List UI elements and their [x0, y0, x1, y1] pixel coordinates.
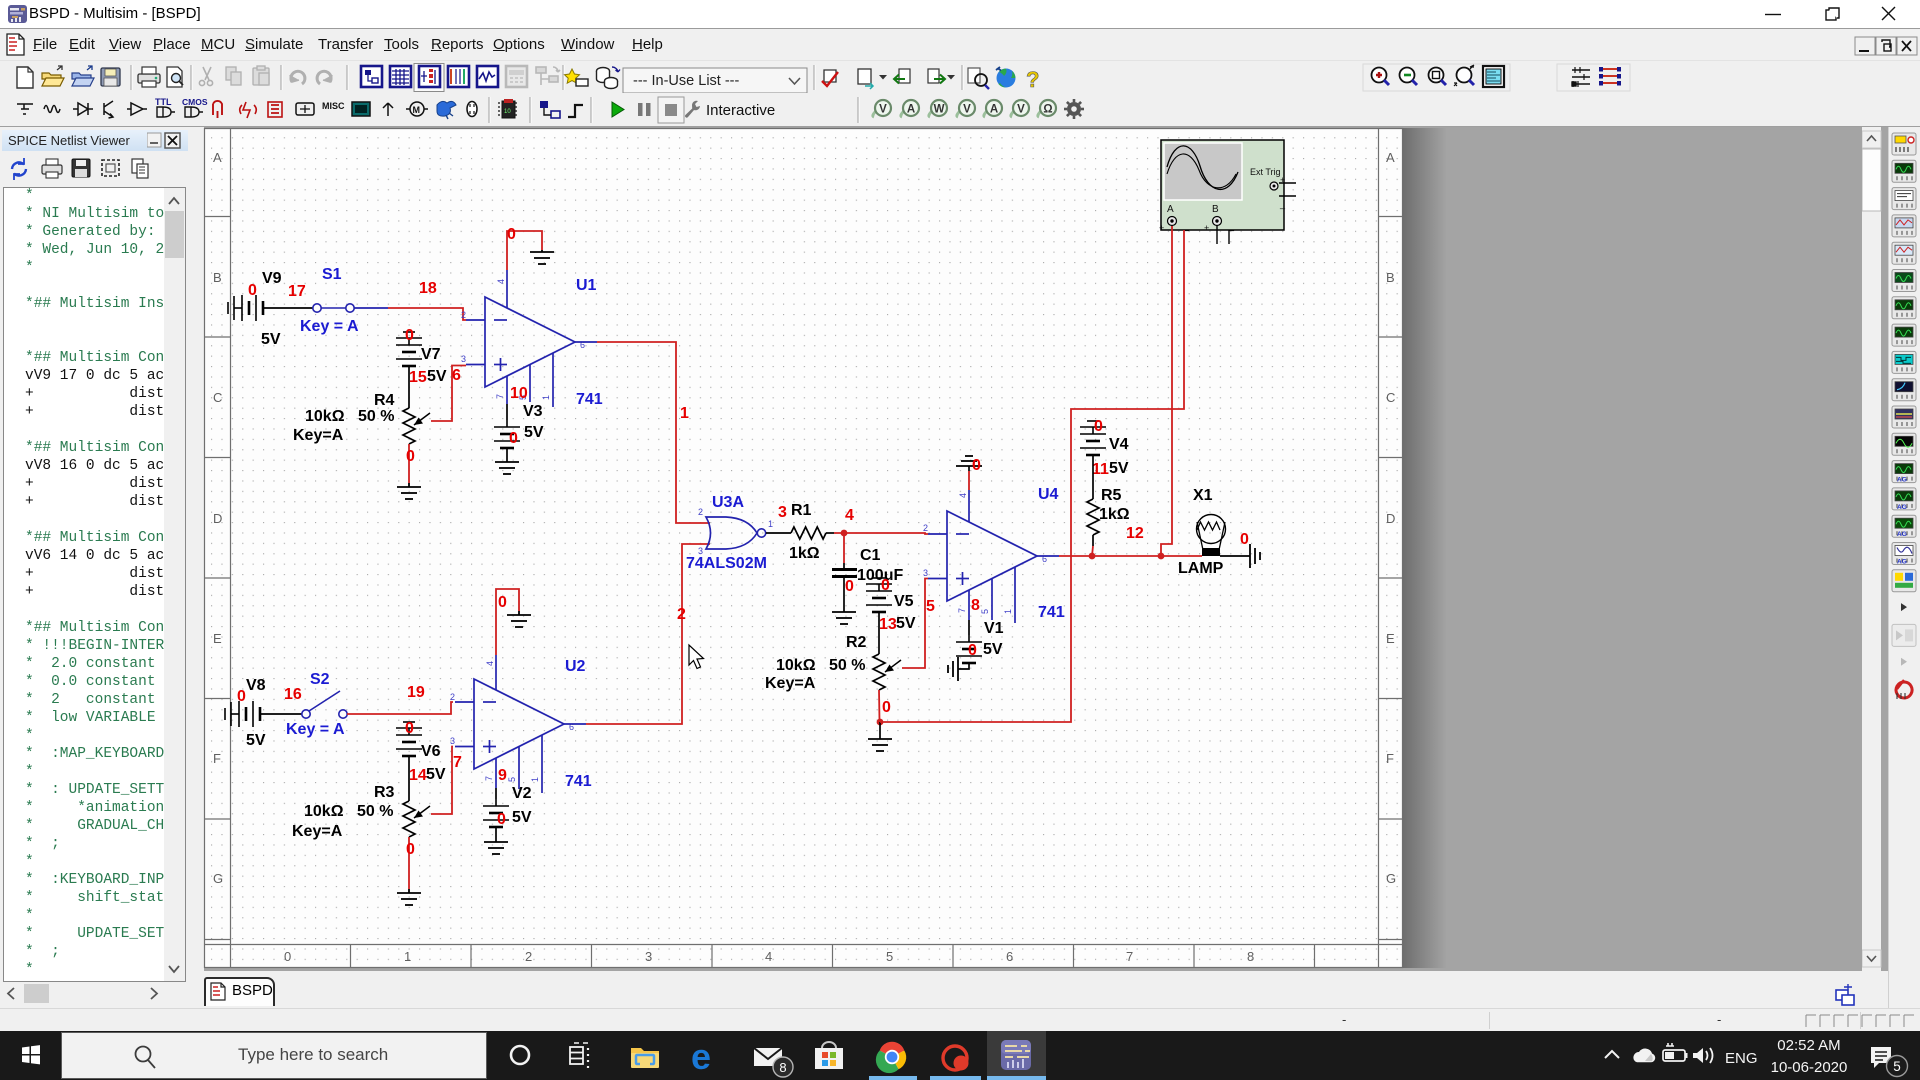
label 10k of R3: [304, 803, 344, 820]
svg-text:0: 0: [237, 688, 246, 705]
toggle labview: [448, 66, 469, 87]
label R3: [374, 784, 395, 801]
pin 4 U4: [958, 493, 968, 498]
node 15: [409, 369, 427, 386]
instrument frequency counter: [1892, 297, 1916, 319]
electromech: [352, 102, 370, 116]
svg-text:5V: 5V: [524, 424, 544, 441]
svg-text:8: 8: [779, 1060, 786, 1075]
zoom fit: [1454, 65, 1474, 86]
CMOS group: [182, 97, 208, 117]
label V3: [523, 403, 543, 420]
svg-text:_: _: [1228, 221, 1235, 231]
battery: [1663, 1043, 1688, 1061]
zoom out: [1400, 68, 1418, 86]
label 5V of V3: [524, 424, 544, 441]
svg-text:V5: V5: [894, 593, 914, 610]
dropdown arrow: [1901, 603, 1907, 611]
scrollbar down: [1862, 950, 1881, 967]
junction scope/net12: [1158, 553, 1165, 560]
instrument elvis: [1892, 570, 1916, 592]
bus branch: [568, 105, 583, 117]
node 0 at V1: [968, 642, 977, 659]
label V6: [421, 743, 441, 760]
svg-text:10kΩ: 10kΩ: [776, 657, 816, 674]
node 0 at V3: [509, 430, 518, 447]
label V8: [246, 677, 266, 694]
node 17: [288, 283, 306, 300]
ground under R3: [397, 893, 421, 905]
instrument oscilloscope 4ch: [1892, 242, 1916, 264]
svg-text:5V: 5V: [246, 732, 266, 749]
ground under V2: [484, 842, 508, 854]
svg-text:1: 1: [1003, 609, 1013, 614]
pin 4 U1: [496, 279, 506, 284]
potentiometer R2: [873, 654, 901, 690]
svg-text:U2: U2: [565, 658, 586, 675]
label U4: [1038, 486, 1059, 503]
label Key=A of R4: [293, 427, 344, 444]
svg-text:0: 0: [1240, 531, 1249, 548]
pin 1 U2: [530, 777, 540, 782]
junction ground node: [877, 719, 884, 726]
pin 2 U2: [450, 692, 455, 702]
svg-text:0: 0: [507, 226, 516, 243]
svg-text:4: 4: [496, 279, 506, 284]
svg-text:1: 1: [530, 777, 540, 782]
print: [138, 67, 160, 87]
ERC check: [822, 70, 838, 86]
connector: [467, 102, 477, 117]
svg-text:D: D: [213, 511, 222, 526]
op-amp U2: [455, 679, 564, 769]
svg-text:2: 2: [923, 523, 928, 533]
undo: [290, 71, 305, 84]
svg-text:50 %: 50 %: [357, 803, 393, 820]
cortana: [511, 1046, 529, 1064]
start button: [22, 1045, 40, 1064]
svg-text:3: 3: [698, 546, 703, 556]
speaker: [1693, 1048, 1713, 1063]
svg-text:1kΩ: 1kΩ: [789, 545, 820, 562]
svg-text:1: 1: [680, 405, 689, 422]
diode group: [73, 103, 93, 115]
redo: [317, 71, 332, 84]
svg-text:3: 3: [450, 736, 455, 746]
svg-text:AG: AG: [1897, 531, 1907, 538]
svg-text:1: 1: [404, 949, 411, 964]
wire V4 to R5: [1092, 455, 1094, 499]
svg-text:4: 4: [958, 493, 968, 498]
svg-text:8: 8: [971, 597, 980, 614]
wire R4 wiper to U1 pin3: [431, 366, 466, 422]
node 0 at U2 pin4: [498, 594, 507, 611]
zoom area tool: [968, 68, 989, 89]
label net 19: [407, 684, 425, 701]
svg-text:Key = A: Key = A: [300, 318, 359, 335]
wire lamp to ground: [1220, 555, 1250, 557]
capture area: [858, 69, 887, 89]
node 13: [879, 616, 897, 633]
svg-text:0: 0: [881, 577, 890, 594]
svg-text:0: 0: [968, 642, 977, 659]
label V1: [984, 620, 1004, 637]
svg-text:F: F: [213, 751, 221, 766]
label R1: [791, 502, 812, 519]
svg-text:5: 5: [507, 777, 517, 782]
label V2: [512, 785, 532, 802]
svg-text:R2: R2: [846, 634, 867, 651]
label 5V of V9: [261, 331, 281, 348]
multisim taskbar: [987, 1031, 1046, 1080]
svg-text:U3A: U3A: [712, 494, 744, 511]
svg-text:B: B: [1212, 204, 1219, 215]
wire net 18: [388, 308, 466, 320]
svg-text:5V: 5V: [983, 641, 1003, 658]
copy: [132, 159, 148, 178]
svg-text:A: A: [1386, 150, 1395, 165]
svg-text:0: 0: [405, 327, 414, 344]
resistor R1: [791, 527, 826, 539]
svg-text:C1: C1: [860, 547, 881, 564]
junction R5/net12: [1089, 553, 1096, 560]
svg-text:0: 0: [882, 699, 891, 716]
svg-text:V: V: [879, 104, 887, 116]
horiz split: [1572, 67, 1590, 87]
svg-text:13: 13: [879, 616, 897, 633]
node 7 label: [453, 754, 462, 771]
labview grayed: [1892, 624, 1916, 646]
pins 5 and 1 stubs U1: [530, 353, 553, 407]
misc text: [322, 101, 345, 111]
resistor R5: [1087, 499, 1099, 535]
svg-text:5V: 5V: [896, 615, 916, 632]
svg-text:741: 741: [576, 391, 603, 408]
svg-text:W: W: [934, 104, 945, 116]
wire R3 wiper to U2 pin3: [431, 747, 453, 815]
label 100uF: [857, 567, 903, 584]
node 0 under R2: [882, 699, 891, 716]
label 5V of V4: [1109, 460, 1129, 477]
label 10 node: [510, 385, 528, 402]
node 0 at V2: [497, 811, 506, 828]
ground above U4 pin4: [956, 456, 982, 466]
svg-text:19: 19: [407, 684, 425, 701]
svg-text:0: 0: [284, 949, 291, 964]
svg-text:AG: AG: [1897, 477, 1907, 484]
schematic sheet: [204, 128, 1403, 968]
svg-text:_: _: [1279, 199, 1286, 209]
instrument bode plotter: [1892, 270, 1916, 292]
forward: [928, 69, 955, 84]
svg-text:0: 0: [972, 457, 981, 474]
app icon multisim: [8, 5, 27, 23]
TTL group: [155, 97, 175, 117]
globe: [996, 67, 1016, 88]
instrument agilent scope: [1892, 433, 1916, 455]
svg-text:G: G: [1386, 871, 1396, 886]
MDI buttons: [1855, 37, 1917, 55]
electromechanical motor: [406, 102, 428, 116]
label net 12: [1126, 525, 1144, 542]
svg-text:0: 0: [1094, 418, 1103, 435]
junction net 4: [841, 530, 848, 537]
label 50% of R3: [357, 803, 393, 820]
wire net 2 U2 out to U3A: [564, 544, 710, 724]
label 5V of V1: [983, 641, 1003, 658]
instrument logic analyzer: [1892, 351, 1916, 373]
wire U1 pin7 to V3: [506, 376, 508, 420]
wire V2 to ground: [495, 827, 497, 842]
svg-text:_: _: [1183, 221, 1190, 231]
label 1k of R1: [789, 545, 820, 562]
svg-text:10: 10: [504, 109, 511, 115]
svg-text:8: 8: [1247, 949, 1254, 964]
label 50% of R2: [829, 657, 865, 674]
wire R5 to net 12: [1092, 535, 1093, 556]
scrollbar up: [1862, 131, 1881, 148]
node 16: [284, 686, 302, 703]
ext trig stubs: [1279, 183, 1296, 196]
select: [102, 160, 119, 176]
battery V8: [225, 701, 260, 727]
ground under C1: [832, 612, 856, 624]
pin 7 U2: [484, 776, 494, 781]
interactive: [685, 101, 775, 119]
svg-text:1: 1: [768, 519, 773, 529]
pin 6 U4: [1042, 554, 1047, 564]
hierarchy gray: [536, 67, 560, 85]
wire R2 bottom to node 0: [878, 690, 881, 722]
label Key=A of R3: [292, 823, 343, 840]
NI component: [437, 101, 456, 119]
instrument word generator: [1892, 324, 1916, 346]
svg-text:C: C: [213, 390, 222, 405]
pins 5 and 1 stubs U2: [519, 735, 542, 793]
wire R3 bottom to ground: [408, 837, 410, 893]
current clamp: [1896, 680, 1912, 699]
svg-text:F: F: [1386, 751, 1394, 766]
svg-text:V: V: [963, 104, 971, 116]
fullscreen: [1483, 66, 1504, 87]
node 14: [409, 767, 427, 784]
instrument distortion analyzer: [1892, 406, 1916, 428]
svg-text:V4: V4: [1109, 436, 1129, 453]
label C1: [860, 547, 881, 564]
label V7: [421, 346, 441, 363]
svg-text:0: 0: [406, 841, 415, 858]
svg-text:E: E: [213, 631, 222, 646]
preview: [167, 67, 183, 87]
svg-text:S2: S2: [310, 671, 330, 688]
instrument IV analyzer: [1892, 379, 1916, 401]
svg-text:A: A: [1167, 204, 1174, 215]
database manager: [597, 67, 621, 89]
zoom page: [1429, 68, 1447, 86]
pin 1 U4: [1003, 609, 1013, 614]
wire U2 pin7 to V2: [495, 758, 497, 799]
svg-text:R4: R4: [374, 392, 395, 409]
svg-text:10: 10: [510, 385, 528, 402]
svg-text:0: 0: [498, 594, 507, 611]
svg-text:Key=A: Key=A: [765, 675, 816, 692]
instrument tektronix scope: [1892, 543, 1916, 566]
svg-text:S1: S1: [322, 266, 342, 283]
instrument function generator: [1892, 160, 1916, 182]
svg-text:Interactive: Interactive: [706, 102, 775, 119]
svg-text:11: 11: [1092, 461, 1109, 478]
paste: [253, 66, 269, 85]
save: [72, 159, 90, 177]
probe icons: [873, 100, 891, 117]
svg-text:6: 6: [1006, 949, 1013, 964]
wire V1 to side ground: [958, 663, 969, 669]
svg-text:0: 0: [406, 448, 415, 465]
label U3A: [712, 494, 744, 511]
pin 6 U2: [569, 722, 574, 732]
svg-text:+: +: [1204, 223, 1209, 233]
label Key = A of S2: [286, 721, 345, 738]
svg-text:R3: R3: [374, 784, 395, 801]
pin 4 U2: [485, 661, 495, 666]
toggle grapher: [477, 66, 498, 87]
switch S2 open: [302, 691, 347, 718]
label net 4: [845, 507, 854, 524]
svg-text:1kΩ: 1kΩ: [1099, 506, 1130, 523]
instrument wattmeter: [1892, 188, 1916, 210]
pin 5 U1: [518, 395, 528, 400]
svg-text:V8: V8: [246, 677, 266, 694]
run button: [612, 102, 624, 117]
svg-text:16: 16: [284, 686, 302, 703]
node 0 at lamp: [1240, 531, 1249, 548]
label V9: [262, 270, 282, 287]
svg-text:e: e: [691, 1036, 711, 1077]
battery V6: [396, 722, 422, 756]
label 5V of V8: [246, 732, 266, 749]
label LAMP: [1178, 560, 1224, 577]
vert split: [1599, 67, 1621, 86]
label 5V of V5: [896, 615, 916, 632]
wire net 1 U1 out to U3A: [575, 342, 710, 523]
RF: [383, 103, 393, 116]
instrument multimeter: [1892, 133, 1916, 155]
pin 3 U2: [450, 736, 455, 746]
svg-text:5V: 5V: [512, 809, 532, 826]
chrome: [876, 1042, 906, 1073]
mouse cursor: [689, 645, 704, 669]
label 741 of U2: [565, 773, 592, 790]
wire U2 pin 4 to ground: [496, 589, 519, 690]
pin 3 U1: [461, 354, 466, 364]
svg-text:U4: U4: [1038, 486, 1059, 503]
node 8: [971, 597, 980, 614]
label 50% of R4: [358, 408, 394, 425]
label V4: [1109, 436, 1129, 453]
stop button: [658, 97, 684, 123]
svg-text:B: B: [1386, 270, 1395, 285]
svg-text:R5: R5: [1101, 487, 1122, 504]
wire net 12 U4 out to lamp: [1037, 555, 1202, 557]
svg-text:10kΩ: 10kΩ: [304, 803, 344, 820]
label 10k of R2: [776, 657, 816, 674]
wire R4 bottom to ground: [408, 444, 410, 487]
oscilloscope XSC1: [1159, 140, 1286, 233]
wire R2 wiper to U4 pin3: [902, 579, 928, 669]
node 6 label: [452, 367, 461, 384]
svg-text:E: E: [1386, 631, 1395, 646]
label R4: [374, 392, 395, 409]
label Key=A of R2: [765, 675, 816, 692]
svg-text:Key=A: Key=A: [293, 427, 344, 444]
svg-text:V2: V2: [512, 785, 532, 802]
pin 7 U4: [957, 608, 967, 613]
svg-text:3: 3: [923, 568, 928, 578]
svg-text:4: 4: [845, 507, 854, 524]
node 0 at U1 pin4: [507, 226, 516, 243]
pin 7 U1: [495, 394, 505, 399]
wire scope A+ to net 12: [1161, 226, 1172, 556]
node 9: [498, 767, 507, 784]
pin 2 U1: [461, 310, 466, 320]
store: [815, 1042, 843, 1069]
svg-text:B: B: [213, 270, 222, 285]
new component wizard: [565, 69, 589, 86]
ground right of lamp: [1250, 544, 1260, 568]
svg-text:R1: R1: [791, 502, 812, 519]
label S1: [322, 266, 342, 283]
svg-text:V3: V3: [523, 403, 543, 420]
svg-text:4: 4: [765, 949, 772, 964]
copy: [226, 67, 241, 85]
svg-text:--- In-Use List ---: --- In-Use List ---: [633, 73, 740, 89]
node 0 at V7: [405, 327, 414, 344]
svg-text:V7: V7: [421, 346, 441, 363]
svg-text:?: ?: [1026, 67, 1039, 92]
toggle postprocessor (gray): [506, 66, 527, 87]
svg-text:7: 7: [1126, 949, 1133, 964]
opera gx: [943, 1046, 969, 1071]
svg-text:7: 7: [957, 608, 967, 613]
instrument network analyzer: [1892, 488, 1916, 511]
svg-text:X1: X1: [1193, 487, 1213, 504]
file explorer: [631, 1048, 659, 1068]
wire U1 pin 4 to ground: [507, 231, 542, 308]
svg-text:1: 1: [541, 395, 551, 400]
tray chevron: [1605, 1051, 1619, 1058]
potentiometer R3: [403, 801, 430, 837]
svg-text:3: 3: [461, 354, 466, 364]
instrument agilent fgen: [1892, 515, 1916, 538]
label net 18: [419, 280, 437, 297]
sources group: [17, 104, 33, 114]
wire scope A- to ground net: [880, 230, 1184, 722]
indicator: [268, 102, 282, 117]
hierarchical block: [540, 101, 560, 118]
instrument spectrum analyzer: [1892, 461, 1916, 484]
label 1k of R5: [1099, 506, 1130, 523]
onedrive: [1633, 1049, 1655, 1063]
ground under R2: [868, 722, 892, 751]
label net 1: [680, 405, 689, 422]
switch S1: [313, 304, 388, 312]
battery V3: [494, 420, 520, 448]
ground under R4: [397, 487, 421, 499]
svg-text:AG: AG: [1897, 504, 1907, 511]
svg-text:Ω: Ω: [1043, 104, 1052, 116]
dropdown arrow 2: [1901, 658, 1907, 666]
pin labels U3A: [698, 507, 773, 556]
